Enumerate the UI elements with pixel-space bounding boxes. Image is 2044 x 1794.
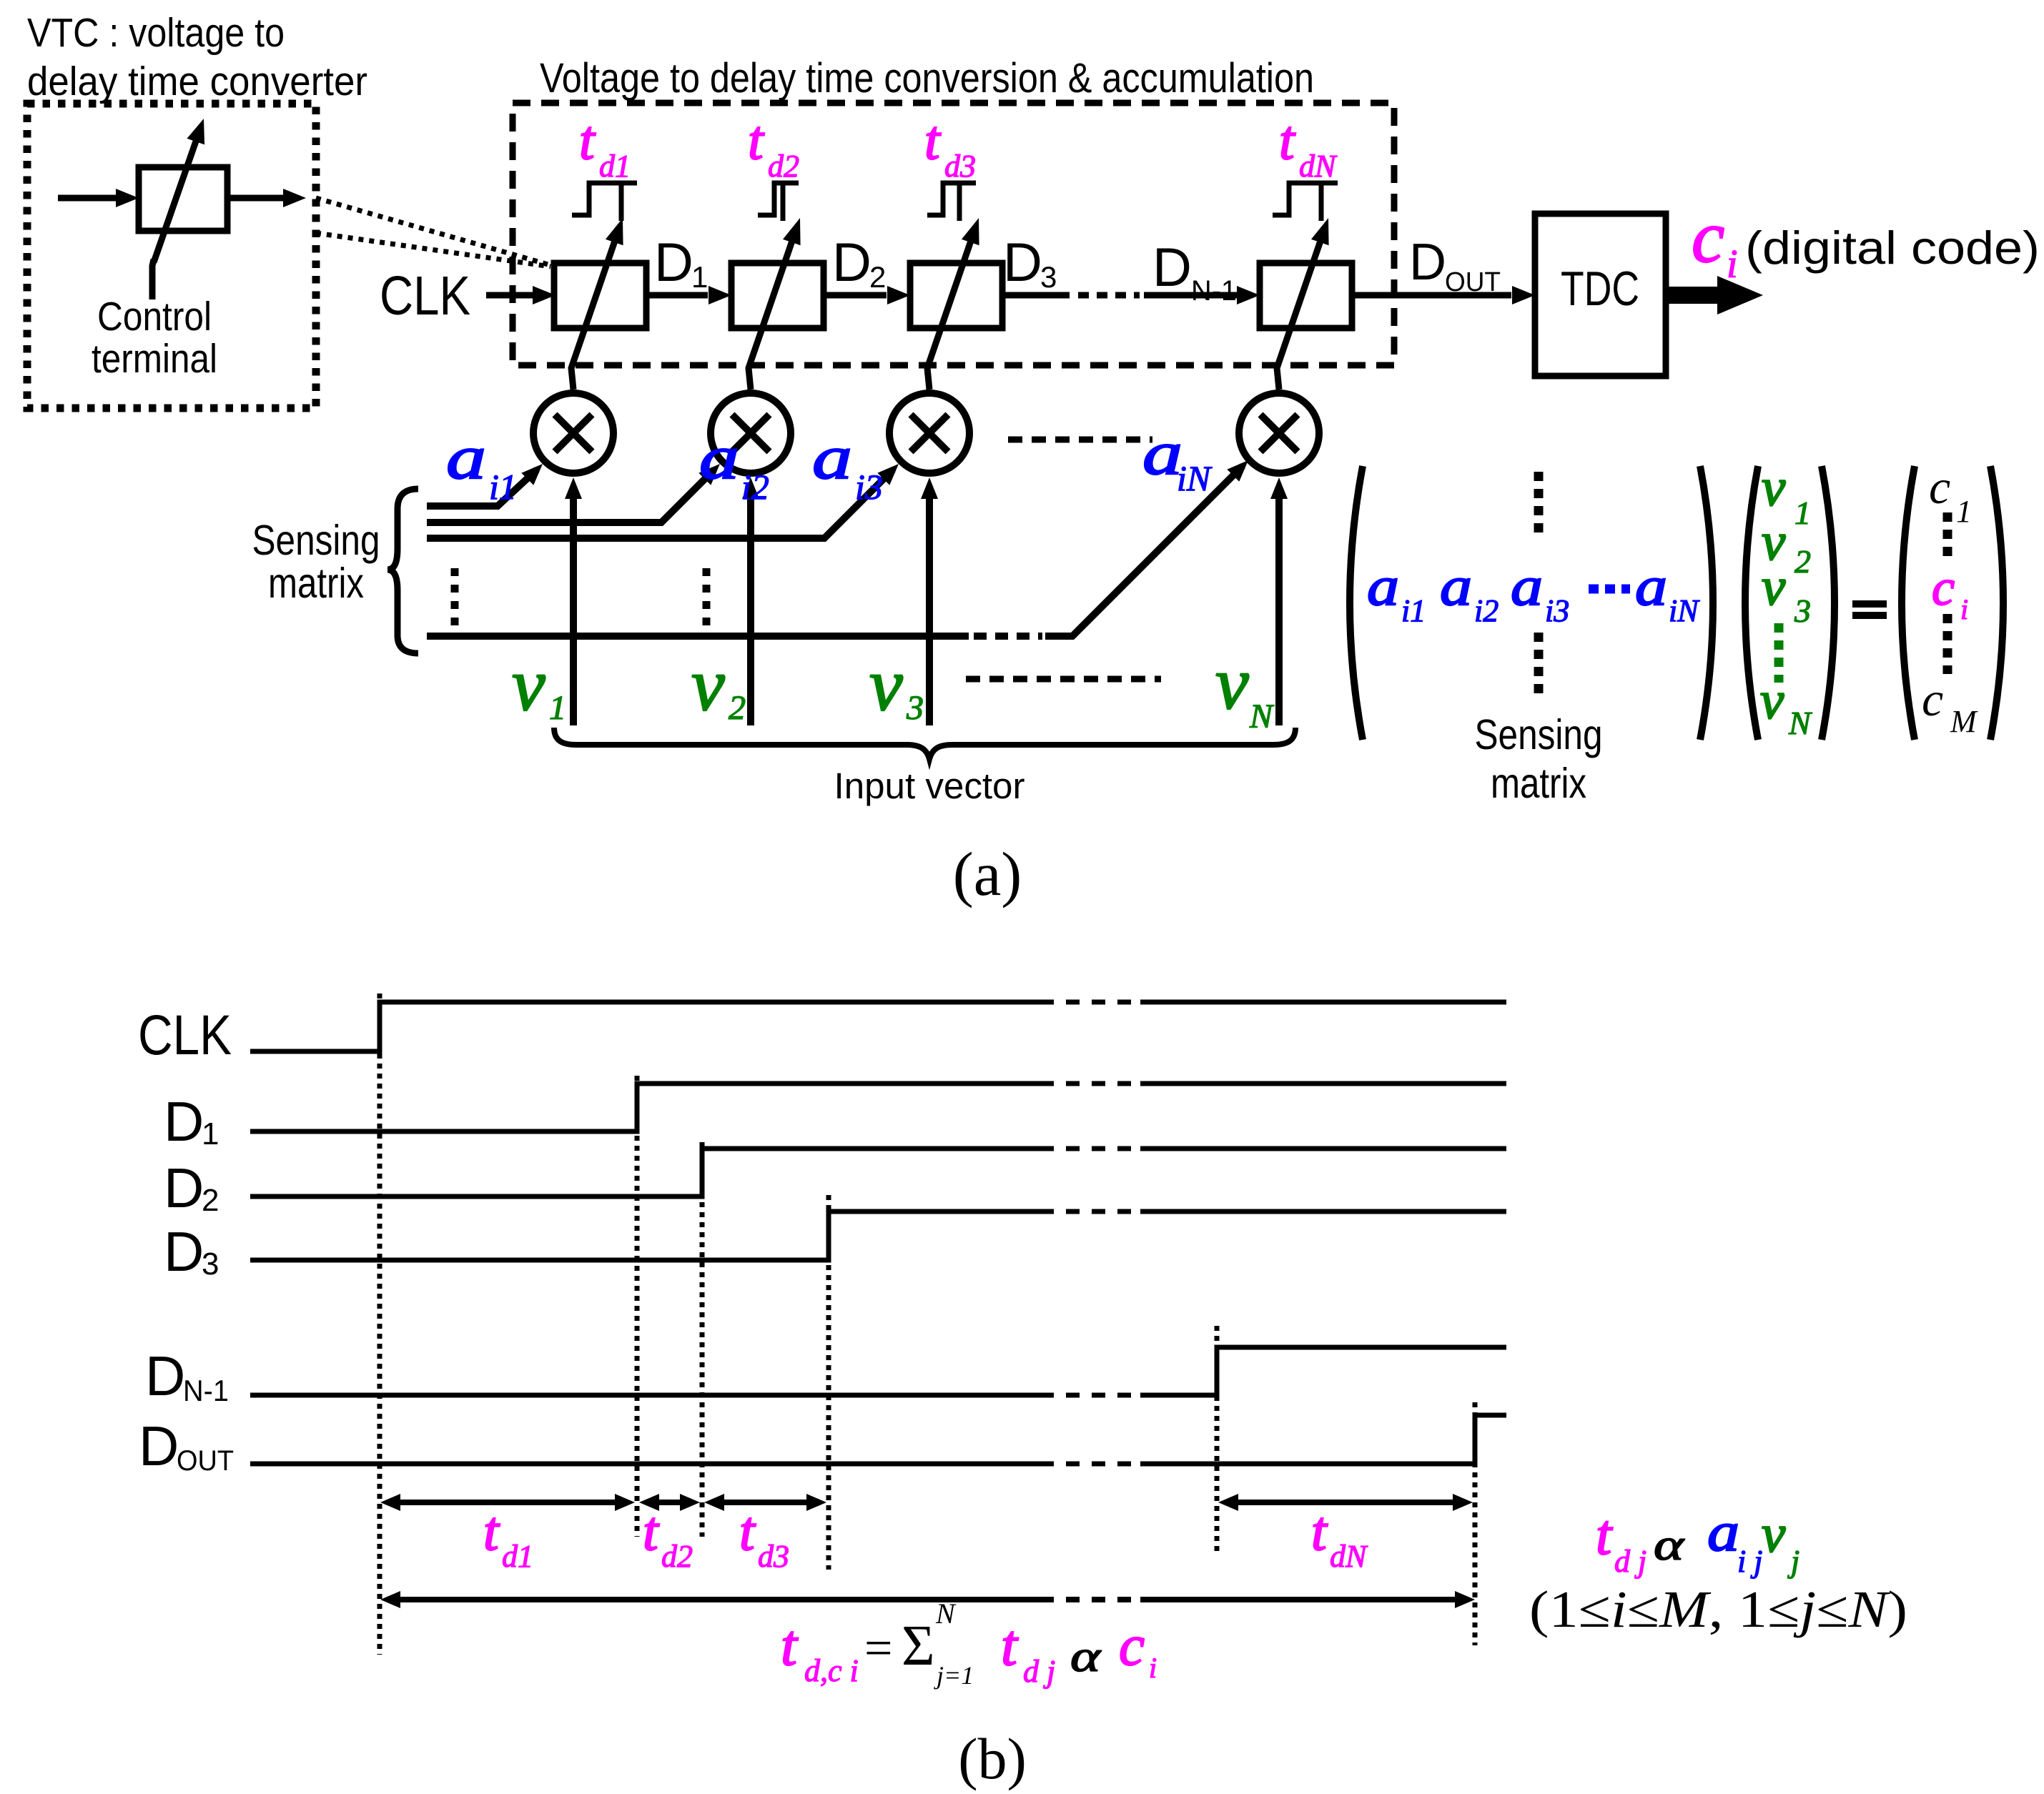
(b) total interval arrow	[396, 1597, 1040, 1602]
svg-text:c: c	[1922, 672, 1943, 726]
VTC legend dotted box	[27, 104, 316, 408]
equals sign	[1852, 600, 1887, 608]
svg-text:D: D	[139, 1414, 179, 1477]
dashed accumulation box	[513, 103, 1394, 365]
multiplier X1	[533, 393, 613, 473]
svg-text:i3: i3	[855, 467, 883, 507]
matrix A right paren	[1700, 466, 1713, 740]
vector v left paren	[1745, 466, 1758, 740]
svg-text:i: i	[1727, 242, 1738, 287]
svg-text:i: i	[1960, 593, 1968, 625]
svg-text:a: a	[446, 422, 486, 492]
svg-text:D: D	[654, 232, 693, 293]
multiplier X2	[711, 393, 791, 473]
control arrow through U2	[749, 241, 792, 390]
svg-text:1: 1	[691, 260, 708, 294]
delay step glyph t_d1	[572, 183, 637, 215]
vector v right paren	[1822, 466, 1835, 740]
wire: sensing bottom row a_iN	[427, 633, 969, 640]
svg-text:D: D	[1409, 234, 1446, 291]
svg-text:2: 2	[1794, 543, 1811, 580]
(b) interval arrow t_dN	[1234, 1500, 1457, 1505]
TDC block	[1535, 214, 1666, 376]
svg-text:iN: iN	[1669, 593, 1700, 628]
svg-text:3: 3	[1794, 593, 1811, 629]
matrix A left paren	[1350, 466, 1363, 740]
svg-text:c: c	[1692, 196, 1724, 278]
svg-text:CLK: CLK	[380, 265, 470, 327]
svg-text:i3: i3	[1545, 593, 1569, 628]
wire: sensing row a_i1	[427, 470, 537, 506]
dashed continuation between v3 and vN	[966, 676, 1161, 683]
svg-text:c: c	[1119, 1613, 1145, 1677]
svg-text:N: N	[1249, 698, 1275, 735]
svg-text:terminal: terminal	[92, 336, 217, 382]
wire: D_OUT to TDC	[1355, 292, 1511, 299]
svg-text:d1: d1	[502, 1539, 533, 1574]
wire: v2 input arrow	[747, 492, 754, 725]
svg-text:1: 1	[1794, 495, 1811, 531]
vertical dots sensing matrix left	[451, 568, 459, 625]
svg-text:Voltage to delay time conversi: Voltage to delay time conversion & accum…	[540, 55, 1314, 101]
svg-text:d j: d j	[1614, 1544, 1646, 1579]
svg-text:v: v	[1762, 458, 1786, 517]
svg-text:Input vector: Input vector	[834, 765, 1025, 806]
svg-text:a: a	[1511, 555, 1543, 617]
svg-text:v: v	[691, 643, 725, 726]
svg-text:D: D	[164, 1220, 204, 1283]
svg-text:OUT: OUT	[1445, 267, 1501, 297]
svg-text:v: v	[1762, 557, 1786, 617]
svg-text:OUT: OUT	[177, 1445, 234, 1477]
vertical dots sensing matrix mid	[703, 568, 711, 625]
svg-text:D: D	[1152, 237, 1192, 298]
svg-text:t: t	[1311, 1500, 1328, 1562]
svg-text:CLK: CLK	[138, 1003, 232, 1066]
svg-text:d j: d j	[1023, 1654, 1055, 1689]
svg-text:v: v	[1762, 1505, 1786, 1564]
svg-text:t: t	[739, 1500, 756, 1562]
svg-text:3: 3	[906, 689, 924, 727]
svg-text:(a): (a)	[953, 839, 1022, 908]
svg-text:M: M	[1950, 704, 1978, 739]
svg-text:(digital code): (digital code)	[1745, 222, 2040, 274]
wire: v3 input arrow	[926, 492, 933, 725]
legend control-arrow diagonal	[154, 135, 198, 262]
svg-text:c: c	[1929, 460, 1950, 514]
svg-text:Sensing: Sensing	[252, 517, 380, 564]
svg-text:N-1: N-1	[1191, 275, 1237, 307]
svg-text:2: 2	[869, 260, 886, 294]
svg-text:α: α	[1654, 1521, 1685, 1570]
svg-text:Sensing: Sensing	[1475, 711, 1603, 758]
svg-text:dN: dN	[1299, 149, 1338, 184]
svg-text:α: α	[1070, 1632, 1102, 1681]
svg-text:2: 2	[202, 1183, 219, 1218]
control arrow through U3	[927, 241, 971, 390]
multiplier X4	[1239, 393, 1319, 473]
svg-text:d2: d2	[768, 149, 799, 184]
svg-text:dN: dN	[1330, 1539, 1368, 1574]
wire: legend input arrow	[58, 195, 117, 202]
svg-text:i1: i1	[1401, 593, 1426, 628]
control arrow through U4	[1277, 241, 1320, 390]
multiplier X3	[889, 393, 969, 473]
svg-text:d,c i: d,c i	[804, 1653, 859, 1688]
svg-text:1: 1	[202, 1116, 219, 1151]
svg-text:iN: iN	[1177, 458, 1213, 498]
VTC delay cell U2	[731, 263, 824, 328]
svg-text:3: 3	[202, 1247, 219, 1282]
svg-text:Σ: Σ	[902, 1615, 935, 1677]
VTC delay cell U4	[1260, 263, 1352, 328]
blue cdots	[1589, 585, 1630, 594]
svg-text:i2: i2	[741, 467, 769, 507]
svg-text:j=1: j=1	[934, 1661, 974, 1690]
(b) waveform D1	[250, 1084, 1040, 1131]
svg-text:=: =	[864, 1621, 892, 1676]
svg-text:(1≤i≤M, 1≤j≤N): (1≤i≤M, 1≤j≤N)	[1529, 1580, 1907, 1638]
wire: legend output arrow	[230, 195, 283, 202]
svg-text:(b): (b)	[958, 1726, 1027, 1791]
svg-text:TDC: TDC	[1561, 262, 1639, 316]
wire: D1	[649, 292, 708, 299]
matrix A col dots bottom	[1534, 633, 1544, 697]
svg-text:v: v	[512, 643, 545, 726]
dotted projection line upper	[316, 198, 551, 265]
svg-text:t: t	[1001, 1612, 1019, 1677]
wire: digital code thick arrow	[1666, 287, 1719, 304]
svg-text:a: a	[1635, 555, 1667, 617]
svg-text:D: D	[145, 1344, 185, 1407]
svg-text:v: v	[1760, 671, 1784, 730]
svg-text:1: 1	[1956, 494, 1972, 529]
(b) interval arrow t_d3	[720, 1500, 811, 1505]
vector c left paren	[1902, 466, 1915, 740]
svg-text:matrix: matrix	[1491, 760, 1586, 807]
svg-text:i: i	[1149, 1652, 1157, 1684]
svg-text:1: 1	[549, 689, 566, 727]
svg-text:t: t	[748, 109, 765, 171]
VTC delay cell U3	[910, 263, 1002, 328]
svg-text:2: 2	[729, 689, 746, 727]
svg-text:d1: d1	[599, 149, 631, 184]
svg-text:N-1: N-1	[183, 1374, 229, 1407]
svg-text:t: t	[643, 1500, 660, 1562]
svg-text:t: t	[781, 1612, 799, 1677]
wire: v4 input arrow	[1275, 492, 1283, 725]
svg-text:t: t	[579, 109, 596, 171]
wire: D3 dotted continuation	[1005, 292, 1070, 299]
wire: control terminal lead	[152, 259, 154, 299]
svg-text:D: D	[1003, 232, 1042, 293]
svg-text:delay time converter: delay time converter	[27, 59, 367, 104]
delay step glyph t_d4	[1273, 183, 1338, 215]
input vector underbrace	[554, 728, 1295, 759]
(b) waveform D3	[250, 1211, 1040, 1260]
svg-text:a: a	[1707, 1501, 1739, 1562]
vector c right paren	[1990, 466, 2003, 740]
svg-text:d2: d2	[661, 1539, 693, 1574]
(b) waveform D_N-1	[250, 1393, 1040, 1398]
svg-text:D: D	[832, 232, 872, 293]
matrix A col dots top	[1534, 472, 1544, 537]
svg-text:t: t	[1279, 109, 1296, 171]
svg-text:a: a	[699, 422, 739, 492]
svg-text:a: a	[1440, 555, 1472, 617]
svg-text:t: t	[483, 1500, 500, 1562]
wire: v1 input arrow	[570, 492, 577, 725]
svg-text:v: v	[869, 643, 903, 726]
svg-text:i1: i1	[489, 467, 517, 507]
dashed continuation between X3 and X4 top	[1008, 437, 1152, 443]
svg-text:N: N	[935, 1597, 957, 1630]
wire: sensing row a_i3	[427, 470, 893, 538]
(b) waveform D_OUT	[250, 1462, 1040, 1467]
(b) interval arrow t_d1	[396, 1500, 619, 1505]
svg-text:d3: d3	[758, 1539, 789, 1574]
wire: sensing row a_i2	[427, 470, 714, 522]
svg-text:d3: d3	[944, 149, 976, 184]
svg-text:t: t	[1596, 1504, 1613, 1567]
svg-text:N: N	[1788, 705, 1812, 741]
svg-text:Control: Control	[97, 294, 212, 340]
svg-text:i2: i2	[1474, 593, 1499, 628]
svg-text:a: a	[812, 422, 852, 492]
wire: D2	[826, 292, 887, 299]
(b) waveform D2	[250, 1149, 1040, 1196]
svg-text:v: v	[1215, 641, 1249, 725]
svg-text:c: c	[1932, 559, 1955, 616]
(b) waveform CLK	[250, 1002, 1040, 1051]
svg-text:D: D	[164, 1156, 204, 1219]
delay step glyph t_d2	[758, 183, 799, 215]
svg-text:i j: i j	[1737, 1544, 1762, 1579]
VTC delay cell U1	[554, 263, 646, 328]
wire: CLK to VTC1	[486, 292, 533, 299]
VTC legend symbol box	[139, 167, 227, 231]
svg-text:VTC : voltage to: VTC : voltage to	[27, 10, 285, 56]
sensing matrix brace	[387, 489, 418, 653]
(b) dotted timing verticals	[377, 993, 382, 1655]
control arrow through U1	[571, 241, 615, 390]
dotted projection line lower	[316, 233, 551, 267]
svg-text:t: t	[924, 109, 942, 171]
delay step glyph t_d3	[927, 183, 976, 215]
svg-text:3: 3	[1040, 260, 1057, 294]
svg-text:matrix: matrix	[268, 560, 364, 607]
svg-text:D: D	[164, 1090, 204, 1153]
svg-text:a: a	[1367, 555, 1399, 617]
(b) interval arrow t_d2	[655, 1500, 684, 1505]
